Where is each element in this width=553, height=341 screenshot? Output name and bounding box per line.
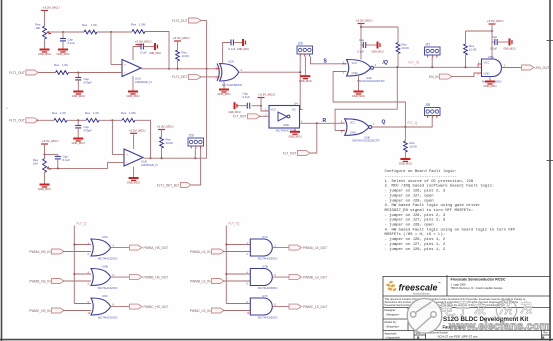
wire tap to U1B -in	[47, 163, 124, 169]
wire P2 to U1A V+	[133, 47, 139, 61]
resistor R4	[56, 71, 69, 75]
svg-text:J29: J29	[189, 134, 194, 138]
svg-text:U5A: U5A	[488, 55, 494, 59]
wire C7 to GND	[366, 44, 377, 46]
wire U5 out to port	[502, 67, 522, 69]
ground G3	[72, 91, 85, 99]
capacitor C7	[363, 42, 365, 48]
svg-text:Q: Q	[382, 120, 386, 126]
svg-text:/EN_OUT: /EN_OUT	[536, 66, 550, 70]
wire down to C1	[62, 32, 64, 39]
svg-text:MC74HC32/SO: MC74HC32/SO	[98, 286, 118, 290]
port FLT2_IN	[9, 118, 38, 123]
wire U4 out R net	[300, 122, 342, 124]
ground G9	[127, 177, 140, 185]
svg-text:1. Select source of OC protect: 1. Select source of OC protection, J28	[385, 179, 474, 184]
svg-text:GND_MCU: GND_MCU	[127, 181, 140, 185]
wire port to U6C in2	[63, 310, 91, 312]
sheet border bottom	[0, 339, 553, 341]
junction U4 vcc node	[260, 105, 262, 107]
nor U3A SN74AUC2G02	[347, 60, 374, 77]
svg-text:1.0K: 1.0K	[60, 111, 66, 115]
port PWMC_LS_OUT	[289, 304, 327, 309]
svg-text:- jumper on J27, open: - jumper on J27, open	[385, 193, 434, 198]
power +3.3V_MCU P9	[487, 19, 504, 26]
wire U5 GND pin	[489, 77, 491, 81]
wire R1 tap to C1 node	[47, 31, 63, 33]
svg-text:1. maje 1009: 1. maje 1009	[451, 283, 467, 287]
power +3.3V_MCU P2	[135, 40, 152, 47]
svg-text:+: +	[124, 63, 126, 67]
wire /Q net	[374, 66, 482, 68]
potentiometer R9 ref divider	[43, 159, 47, 173]
watermark circle around char	[496, 300, 516, 320]
wire J28 pin2 to Q	[431, 118, 433, 127]
wire Q net	[372, 126, 433, 128]
svg-text:10K: 10K	[33, 161, 38, 165]
R1 wiper arrow	[47, 32, 51, 34]
wire C2 to GND	[77, 80, 79, 91]
resistor R6	[54, 118, 67, 122]
svg-text:U7A: U7A	[262, 235, 268, 239]
ground G13	[352, 91, 365, 99]
wire U2A GND pin	[223, 81, 225, 89]
and U7A MC74HC08	[250, 239, 272, 256]
svg-text:PWMA_HS_IN: PWMA_HS_IN	[29, 250, 51, 254]
svg-text:GND_MCU: GND_MCU	[237, 48, 249, 51]
wire C6 top stub	[57, 155, 59, 157]
junction rail	[360, 26, 362, 28]
svg-text:VCC: VCC	[484, 61, 490, 65]
wire P1 to R1	[44, 13, 46, 27]
wire rail down to R11	[397, 27, 399, 43]
svg-text:VCC: VCC	[352, 61, 358, 65]
and U7C MC74HC08	[250, 298, 272, 315]
jumper J29	[188, 134, 204, 149]
wire stub U2A in2	[216, 76, 220, 78]
capacitor C9	[495, 39, 497, 45]
svg-text:PWMA_LS_IN: PWMA_LS_IN	[190, 250, 211, 254]
wire P3 to R5	[177, 43, 179, 50]
junction cap branch	[44, 154, 46, 156]
svg-text:GND_MCU: GND_MCU	[217, 92, 230, 96]
svg-text:FLT_/Q: FLT_/Q	[229, 222, 240, 226]
svg-text:www.elecfans.com: www.elecfans.com	[448, 320, 550, 332]
svg-text:GND_MCU: GND_MCU	[352, 94, 365, 98]
wire R10 to out	[161, 148, 163, 158]
svg-text:FLT1_OUT: FLT1_OUT	[9, 71, 25, 75]
title block frame	[383, 275, 550, 340]
wire C3 to GND	[143, 46, 154, 48]
wire down to C5	[77, 120, 79, 125]
svg-text:1.0M: 1.0M	[129, 111, 136, 115]
inverter U4 MC74VHC1G04	[269, 106, 300, 129]
svg-text:FLT2_OUT: FLT2_OUT	[172, 19, 188, 23]
wire R9 to GND	[44, 173, 46, 184]
svg-text:NC: NC	[292, 108, 296, 112]
junction J27//Q	[431, 66, 433, 68]
svg-text:GND_MCU: GND_MCU	[371, 50, 383, 53]
wire bus to U6B in1	[74, 273, 91, 275]
designer fields	[385, 308, 401, 340]
resistor R8 feedback	[122, 118, 135, 122]
op-amp U1B	[124, 149, 143, 166]
svg-text:GND_MCU: GND_MCU	[149, 52, 161, 55]
svg-text:Res: Res	[82, 23, 88, 27]
svg-text:FLT1_DET_BLT: FLT1_DET_BLT	[157, 183, 180, 187]
svg-text:Res: Res	[54, 63, 60, 67]
svg-text:Res: Res	[121, 111, 127, 115]
svg-text:J26: J26	[298, 42, 303, 46]
svg-text:0.1uF: 0.1uF	[229, 47, 236, 51]
svg-text:Drawn by:: Drawn by:	[385, 320, 397, 324]
wire U2A VCC to C4	[223, 43, 231, 64]
resistor R12 pulldown	[404, 141, 408, 152]
svg-text:+3.3V_MCU: +3.3V_MCU	[173, 36, 190, 40]
junction bus row A	[73, 244, 75, 246]
junction ref/feedback node	[110, 31, 112, 33]
svg-text:GND_MCU: GND_MCU	[126, 94, 139, 98]
svg-text:- jumper on J26, pins 2, 3: - jumper on J26, pins 2, 3	[385, 213, 446, 218]
wire ref node to R2	[63, 31, 84, 33]
port PWMC_LS_IN	[190, 308, 224, 313]
svg-text:MC74HC08/SO: MC74HC08/SO	[258, 286, 278, 290]
port FLT1_DET	[172, 74, 201, 79]
sheet zone tick right	[547, 40, 553, 42]
jumper J28	[425, 103, 441, 118]
port PWMA_HS_OUT	[130, 245, 169, 250]
wire R12 to GND	[404, 152, 406, 158]
svg-text:470pF: 470pF	[84, 128, 92, 132]
svg-text:+: +	[126, 152, 128, 156]
wire U3A GND pin	[358, 76, 360, 91]
wire FLT_/Q bus vertical	[225, 226, 227, 304]
junction Q node	[404, 126, 406, 128]
junction bus2 row B	[225, 273, 227, 275]
wire port to U7B in2	[223, 280, 250, 282]
resistor R3 feedback	[132, 30, 145, 34]
R9 wiper arrow	[47, 167, 51, 169]
sheet border left	[1, 0, 3, 341]
svg-text:PWMC_LS_IN: PWMC_LS_IN	[190, 309, 211, 313]
wire bus to U7C in1	[226, 303, 250, 305]
potentiometer R1 ref divider	[43, 26, 47, 39]
svg-text:FLT_Q: FLT_Q	[408, 121, 418, 125]
company address	[451, 278, 506, 291]
capacitor C4	[231, 40, 233, 46]
port FLT_RST	[233, 114, 260, 119]
svg-text:FLT_/Q: FLT_/Q	[409, 61, 420, 65]
power +3.3V_MCU P7	[356, 19, 373, 26]
svg-text:VCC: VCC	[350, 120, 356, 124]
svg-text:10.0K: 10.0K	[469, 47, 477, 51]
svg-text:1.0K: 1.0K	[93, 111, 99, 115]
power +3.3V_MCU P4	[129, 129, 146, 136]
svg-text:PWMC_HS_IN: PWMC_HS_IN	[29, 309, 51, 313]
wire R13 to /Q net	[465, 55, 467, 67]
jumper J26	[297, 42, 313, 57]
svg-text:PWMB_LS_IN: PWMB_LS_IN	[190, 279, 211, 283]
wire U1A out to U2A	[141, 68, 220, 70]
svg-text:PWMC_HS_OUT: PWMC_HS_OUT	[144, 305, 169, 309]
resistor R13 pullup	[464, 44, 468, 55]
wire stub U3A in1	[343, 63, 347, 65]
power +3.3V_MCU P1	[41, 6, 59, 13]
svg-text:+3.3V_MCU: +3.3V_MCU	[42, 139, 59, 143]
svg-text:GND_MCU: GND_MCU	[38, 52, 51, 56]
or U6B MC74HC32	[91, 269, 111, 286]
svg-text:10K: 10K	[35, 26, 40, 30]
wire P2 to C3	[139, 46, 141, 48]
svg-text:PWMA_LS_OUT: PWMA_LS_OUT	[303, 246, 327, 250]
svg-text:FLT_Q: FLT_Q	[77, 222, 87, 226]
jumper J27	[425, 43, 441, 58]
wire stub U3A in2	[343, 71, 347, 73]
capacitor C8	[247, 103, 249, 109]
wire U6A out to port	[111, 247, 130, 249]
wire J26 pin1 down	[300, 57, 302, 110]
wire stub U3B in1	[341, 122, 345, 124]
wire Q to U3A in	[333, 72, 405, 128]
capacitor C6	[55, 157, 61, 159]
svg-text:1.0K: 1.0K	[91, 23, 97, 27]
svg-text:FLT1_DET: FLT1_DET	[172, 75, 187, 79]
resistor R7	[86, 118, 99, 122]
power +3.3V_MCU P6	[157, 125, 174, 132]
svg-text:GND: GND	[283, 123, 289, 127]
svg-text:Designer:: Designer:	[385, 308, 397, 312]
port FLT1_DET_BLT	[157, 183, 191, 188]
wire /Q into U5 in1	[477, 64, 479, 67]
wire R7 to R8	[99, 119, 122, 121]
svg-text:SCH-27 xxx PDF :SPF-27 xxx: SCH-27 xxx PDF :SPF-27 xxx	[438, 334, 479, 338]
svg-text:™: ™	[438, 281, 441, 285]
wire port to U7A in2	[223, 251, 250, 253]
wire J29 pin2 down	[194, 149, 196, 159]
junction J26/U2A out	[299, 71, 301, 73]
svg-text:LM293AD_N: LM293AD_N	[141, 163, 158, 167]
svg-text:- jumper on J28, open: - jumper on J28, open	[385, 198, 434, 203]
wire U1A V- to GND	[132, 76, 134, 91]
wire stub U3B in2	[341, 129, 345, 131]
ground G14	[399, 158, 412, 166]
wire U7C out to port	[272, 306, 289, 308]
svg-text:PWMB_HS_OUT: PWMB_HS_OUT	[144, 275, 169, 279]
svg-text:+3.3V_MCU: +3.3V_MCU	[356, 19, 373, 23]
svg-text:- jumper on J28, open: - jumper on J28, open	[385, 223, 434, 228]
ground G1	[38, 49, 51, 57]
svg-text:PWMA_HS_OUT: PWMA_HS_OUT	[144, 246, 169, 250]
svg-text:U2A: U2A	[228, 60, 234, 64]
svg-text:- jumper on J28, pins 1, 2: - jumper on J28, pins 1, 2	[385, 247, 446, 252]
capacitor C3 decoupling	[141, 44, 143, 50]
svg-text:0.1uF: 0.1uF	[243, 95, 251, 99]
wire U1B V- to GND	[133, 167, 135, 178]
wire C9 to GND	[497, 41, 508, 43]
wire R3 to output node	[145, 32, 169, 69]
junction ref node	[62, 31, 64, 33]
junction R5/out	[177, 68, 179, 70]
svg-text:1.0K: 1.0K	[62, 63, 68, 67]
svg-text:10.0K: 10.0K	[166, 141, 174, 145]
wire U6C out to port	[111, 306, 130, 308]
svg-text:SN74AUC2G02DCTR: SN74AUC2G02DCTR	[352, 139, 380, 143]
resistor R10 pullup	[160, 137, 164, 148]
svg-text:U4: U4	[294, 102, 298, 106]
wire C5 to GND	[77, 128, 79, 138]
svg-text:Res: Res	[52, 111, 58, 115]
wire stub U5 in2	[478, 72, 482, 74]
svg-text:- jumper on J27, pins 2, 3: - jumper on J27, pins 2, 3	[385, 218, 446, 223]
wire R6 to R7	[67, 119, 86, 121]
wire U2A out to J26	[239, 71, 301, 73]
junction J29 pin	[194, 157, 196, 159]
power +3.3V_MCU P8	[258, 93, 275, 100]
junction bus2 row A	[225, 244, 227, 246]
wire R5 to output node	[177, 61, 179, 69]
and U7B MC74HC08	[250, 269, 272, 286]
wire C6 to tap	[57, 159, 59, 169]
svg-text:1.0M: 1.0M	[139, 23, 146, 27]
svg-text:MC74HC08/SO: MC74HC08/SO	[258, 316, 278, 320]
nor U3B SN74AUC2G02	[345, 119, 372, 136]
wire vertical wired-or bus	[206, 21, 208, 159]
ground G16	[288, 131, 301, 139]
wire Q to R12	[404, 127, 406, 141]
svg-text:R: R	[323, 118, 327, 124]
ground G12 side	[371, 42, 383, 54]
wire port to R6	[36, 119, 54, 121]
ground G2	[56, 49, 69, 57]
ground G6 side	[237, 39, 249, 51]
svg-text:Approved:: Approved:	[385, 331, 398, 335]
notes Configure on Board Fault logic	[385, 169, 516, 252]
resistor R2	[84, 30, 97, 34]
svg-text:- jumper on J26, pins 2, 3: - jumper on J26, pins 2, 3	[385, 189, 446, 194]
svg-text:4. HW based Fault logic using: 4. HW based Fault logic using on board l…	[385, 227, 516, 232]
svg-text:GND: GND	[352, 71, 358, 75]
ground G7	[217, 89, 230, 97]
port PWMC_HS_IN	[29, 308, 64, 313]
wire U1B out	[144, 157, 207, 159]
svg-text:GND_MCU: GND_MCU	[399, 162, 412, 166]
svg-text:/Q: /Q	[382, 60, 388, 66]
svg-text:<Drawnby>: <Drawnby>	[386, 325, 400, 329]
freescale logo	[386, 280, 441, 295]
disclaimer text	[385, 297, 526, 307]
svg-text:LM293AD_N: LM293AD_N	[135, 80, 152, 84]
svg-text:Cap: Cap	[492, 35, 498, 39]
ground G11	[299, 75, 312, 83]
svg-text:GND_MCU: GND_MCU	[72, 94, 85, 98]
junction C6/tap	[57, 167, 59, 169]
svg-text:PWMB_HS_IN: PWMB_HS_IN	[29, 279, 51, 283]
svg-text:freescale: freescale	[399, 283, 438, 293]
svg-text:MC74HC08/SO: MC74HC08/SO	[258, 257, 278, 261]
svg-text:+3.3V_MCU: +3.3V_MCU	[43, 6, 60, 10]
capacitor C2	[75, 78, 81, 80]
wire port to U6A in2	[63, 251, 91, 253]
svg-text:PWMC_LS_OUT: PWMC_LS_OUT	[303, 305, 327, 309]
wire J26 pin2 to GND	[304, 57, 306, 76]
port /EN_OUT	[522, 65, 550, 70]
or U6C MC74HC32	[91, 298, 111, 315]
junction C2 node	[77, 72, 79, 74]
svg-text:PWMB_LS_OUT: PWMB_LS_OUT	[303, 275, 327, 279]
wire P9 to U5 VCC	[491, 26, 493, 59]
svg-text:Freescale Semiconductor RCSC: Freescale Semiconductor RCSC	[451, 278, 506, 282]
wire bus to U7B in1	[226, 273, 250, 275]
svg-text:J27: J27	[425, 43, 430, 47]
wire GND to C8	[237, 105, 248, 107]
svg-text:0.1uF: 0.1uF	[68, 41, 76, 45]
wire port to U6B in2	[63, 280, 91, 282]
svg-text:FLT_RST: FLT_RST	[283, 151, 297, 155]
svg-text:MC74HC86/SO: MC74HC86/SO	[222, 83, 243, 87]
junction R/FLT_RST	[316, 122, 318, 124]
svg-text:SN74AUC2G02DCTR: SN74AUC2G02DCTR	[357, 79, 385, 83]
wire C1 to GND	[62, 41, 64, 49]
wire stub U2A in1	[216, 68, 220, 70]
size / doc number / rev	[416, 332, 549, 341]
svg-text:Configure on Board Fault logic: Configure on Board Fault logic:	[385, 169, 457, 174]
wire FLT1_OUT port to R4	[36, 72, 56, 74]
port PWMA_LS_IN	[190, 249, 224, 254]
port FLT_RST 2	[283, 151, 310, 156]
wire to C7	[361, 44, 363, 46]
svg-text:GND_MCU: GND_MCU	[288, 134, 301, 138]
svg-text:0.1uF: 0.1uF	[63, 158, 71, 162]
wire branch to C6	[45, 154, 58, 156]
ground G8	[72, 138, 85, 146]
wire rail2 to R13	[466, 30, 493, 32]
svg-text:Cap: Cap	[359, 38, 365, 42]
svg-text:semiconductor: semiconductor	[413, 292, 430, 296]
svg-text:- jumper on J27, pins 1, 2: - jumper on J27, pins 1, 2	[385, 242, 446, 247]
wire J29 pin3 to port	[191, 149, 201, 186]
resistor R11 pullup	[396, 43, 400, 54]
wire bus to U7A in1	[226, 244, 250, 246]
svg-text:GND_MCU: GND_MCU	[299, 79, 312, 83]
power +3.3V_MCU P5	[41, 139, 58, 146]
svg-text:+3.3V_MCU: +3.3V_MCU	[157, 125, 174, 129]
junction C5 node	[77, 119, 79, 121]
svg-text:756 61 Roznov p. R., Czech rep: 756 61 Roznov p. R., Czech republic, Eur…	[451, 286, 504, 290]
wire to U1A +in	[111, 64, 122, 66]
svg-text:<Designer>: <Designer>	[386, 313, 400, 317]
svg-text:U7B: U7B	[262, 265, 268, 269]
svg-text:U6A: U6A	[102, 235, 108, 239]
svg-text:U6C: U6C	[102, 294, 108, 298]
wire P5 to R9	[44, 146, 46, 159]
port PWMB_LS_OUT	[289, 275, 327, 280]
wire bus to U6C in1	[74, 303, 91, 305]
svg-text:------------------------------: -------------------------------	[385, 175, 457, 179]
svg-text:MC74HC32/SO: MC74HC32/SO	[98, 257, 118, 261]
wire /Q to U3B in	[335, 67, 397, 130]
wire U7B out to port	[272, 276, 289, 278]
wire R4 to U1A -in	[69, 72, 123, 74]
wire P8 to U4 VCC	[261, 100, 269, 112]
svg-text:MOSFETs (/HS = H, LS = L):: MOSFETs (/HS = H, LS = L):	[385, 232, 446, 237]
xor U2A MC74HC86	[217, 64, 239, 82]
wire P6 to R10	[161, 132, 163, 138]
watermark chinese characters	[442, 301, 532, 316]
port PWMB_LS_IN	[190, 279, 224, 284]
wire U7A out to port	[272, 247, 289, 249]
ground G5	[126, 91, 139, 99]
wire R1 to GND	[44, 39, 46, 49]
